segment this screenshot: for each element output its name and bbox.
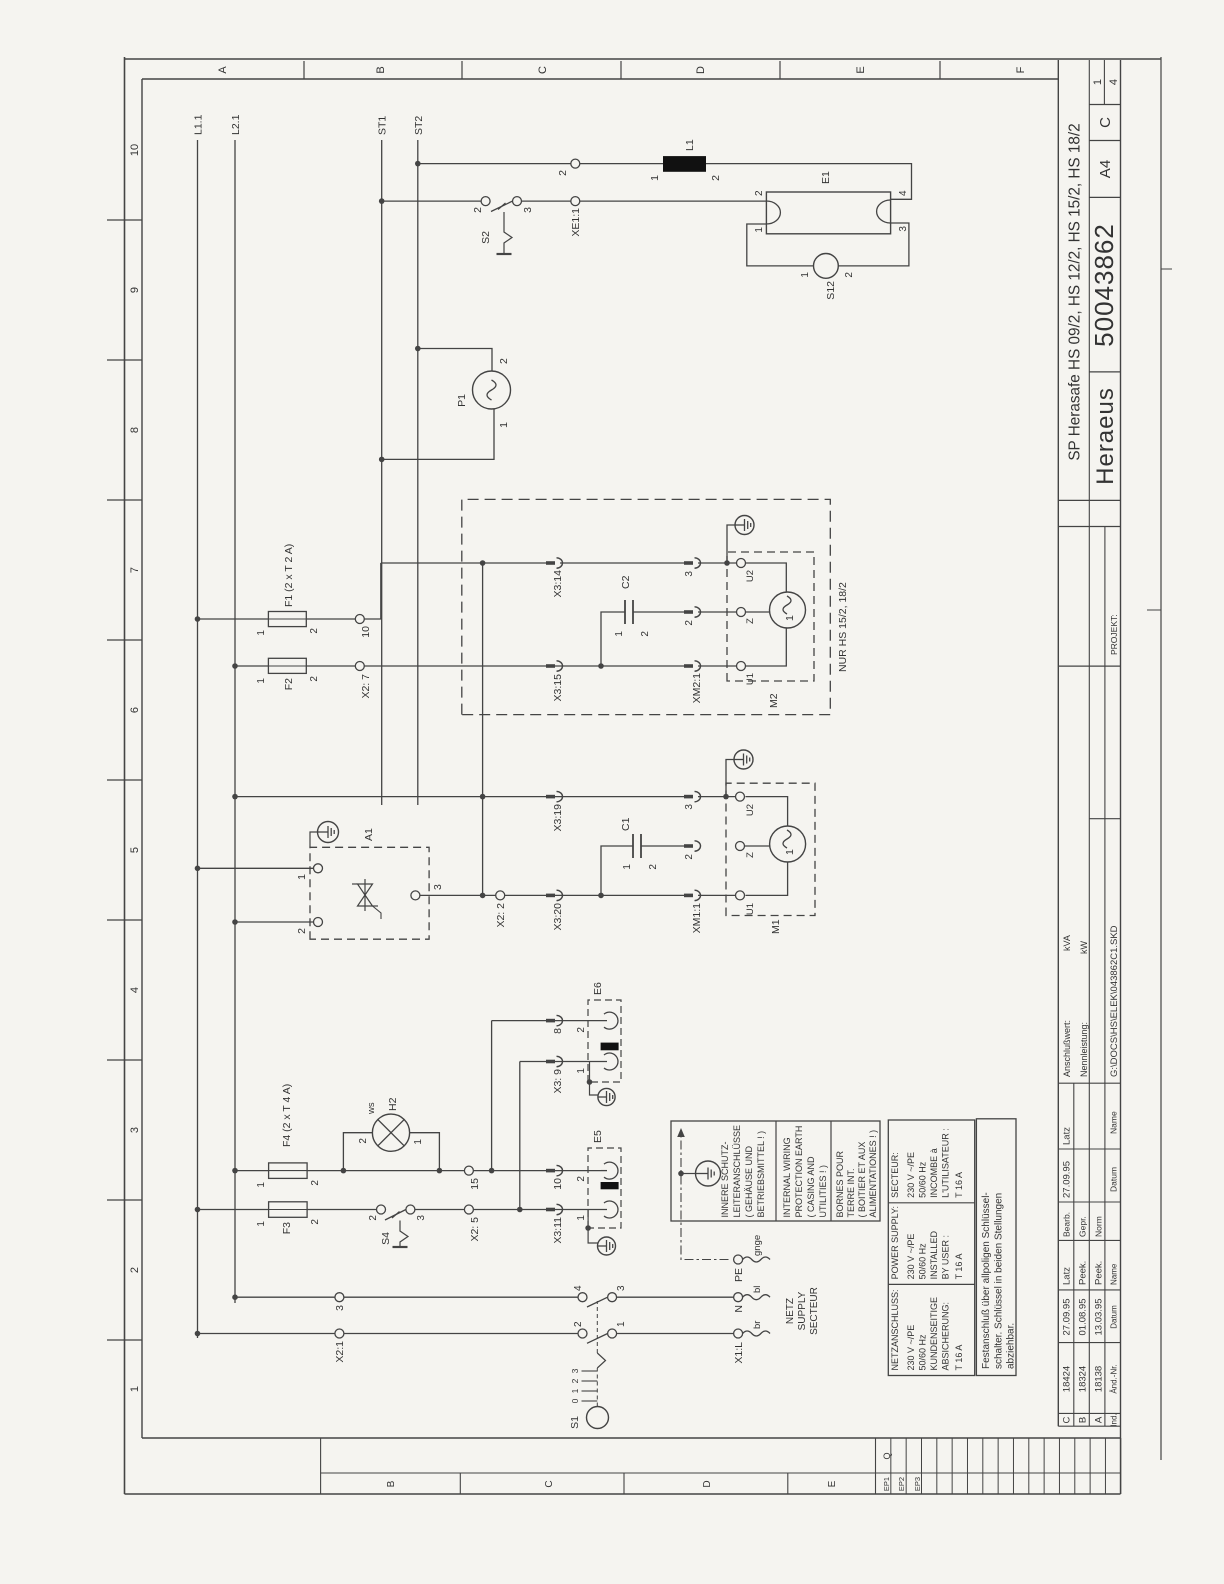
terminal X1:L	[734, 1329, 743, 1338]
svg-text:1: 1	[622, 864, 633, 870]
title block strip outline	[1057, 60, 1059, 1426]
M1 terminal U2	[736, 792, 745, 801]
node on ST2 for P1	[415, 346, 421, 352]
wire L2.1 to A1 pin 2	[235, 921, 314, 923]
A1 terminal 2	[314, 918, 323, 927]
node C1 tap	[598, 893, 604, 899]
svg-text:XM1:1: XM1:1	[691, 903, 703, 934]
wire X3:19 rung	[235, 796, 691, 798]
S1 mechanical dashed link	[596, 1368, 598, 1407]
svg-text:C: C	[537, 66, 549, 74]
connector XM1:1 pin 1	[684, 894, 693, 898]
wire S1 to N terminal	[617, 1296, 734, 1298]
svg-text:E6: E6	[592, 982, 604, 995]
svg-text:Name: Name	[1109, 1111, 1119, 1134]
svg-text:C: C	[1062, 1416, 1073, 1423]
svg-text:INTERNAL WIRING: INTERNAL WIRING	[782, 1137, 792, 1217]
svg-text:E: E	[855, 66, 867, 73]
svg-text:18424: 18424	[1062, 1366, 1073, 1392]
svg-text:0: 0	[570, 1398, 580, 1403]
earth note dash-dot link with arrow	[681, 1135, 729, 1260]
connector X3:20	[546, 894, 555, 898]
fuse F2	[268, 658, 306, 673]
svg-text:( CASING AND: ( CASING AND	[806, 1156, 816, 1218]
wire E1 pin3 to S12	[838, 223, 909, 266]
svg-text:S2: S2	[480, 231, 492, 244]
node on ST2 lamp branch	[415, 161, 421, 167]
svg-text:A4: A4	[1097, 160, 1114, 178]
svg-text:Festanschluß über allpoligen: Festanschluß über allpoligen Schlüssel-	[981, 1192, 992, 1369]
S1 contact circles upper pole	[578, 1293, 587, 1302]
connector X3:15	[546, 664, 555, 668]
svg-text:A: A	[1094, 1416, 1105, 1423]
E6 element arc left	[604, 1053, 618, 1070]
E5 element arc right	[604, 1162, 618, 1179]
switch S4 blade	[385, 1210, 406, 1221]
svg-text:3: 3	[684, 804, 695, 810]
connector XM2:1 pin 3	[684, 561, 693, 565]
svg-text:SECTEUR:: SECTEUR:	[890, 1152, 900, 1198]
node on L1.1 for X2:1	[195, 1331, 201, 1337]
E6 earth tap	[590, 1062, 599, 1096]
S1 blade upper pole	[587, 1297, 608, 1307]
flexible wire PE	[743, 1257, 770, 1262]
svg-text:INSTALLED: INSTALLED	[929, 1231, 939, 1280]
svg-text:Gepr.: Gepr.	[1078, 1216, 1088, 1237]
svg-text:2: 2	[754, 190, 765, 196]
svg-text:ws: ws	[366, 1102, 377, 1115]
svg-text:PROTECTION EARTH: PROTECTION EARTH	[794, 1126, 804, 1218]
svg-text:13.03.95: 13.03.95	[1094, 1299, 1105, 1336]
outer border frame	[124, 57, 126, 1494]
capacitor C2	[624, 600, 626, 624]
svg-text:1: 1	[614, 631, 625, 637]
E6 protective earth connector	[598, 1088, 615, 1105]
svg-text:1: 1	[576, 1215, 587, 1221]
svg-text:50/60 Hz: 50/60 Hz	[918, 1334, 928, 1371]
svg-text:L'UTILISATEUR :: L'UTILISATEUR :	[941, 1128, 951, 1198]
wire F2 to X2:7	[306, 665, 355, 667]
svg-text:F: F	[1015, 66, 1027, 73]
svg-text:10: 10	[552, 1178, 564, 1190]
wire terminal to ballast L1	[580, 163, 663, 165]
wire ST2 down to terminal 2	[418, 163, 571, 165]
node on ST1 S2 branch	[379, 198, 385, 204]
wire X2:2 down rung	[505, 894, 691, 896]
svg-text:NETZ: NETZ	[785, 1298, 796, 1324]
svg-text:Z: Z	[745, 618, 756, 624]
left margin strip column divider	[321, 1472, 1121, 1474]
connector XM1:1 pin 3	[684, 795, 693, 799]
svg-text:br: br	[752, 1321, 763, 1329]
svg-text:D: D	[702, 1480, 713, 1487]
svg-text:1: 1	[649, 175, 661, 181]
wire ST2 to P1 terminal 2	[418, 349, 492, 372]
svg-text:1: 1	[413, 1139, 424, 1145]
svg-text:TERRE INT.: TERRE INT.	[846, 1168, 856, 1217]
svg-text:E5: E5	[592, 1130, 604, 1143]
svg-text:Latz: Latz	[1062, 1267, 1073, 1285]
fuse F3	[269, 1202, 308, 1218]
svg-text:U2: U2	[745, 570, 756, 582]
svg-text:1: 1	[754, 227, 765, 233]
svg-text:Norm: Norm	[1094, 1216, 1104, 1237]
rotary switch S1	[587, 1407, 609, 1429]
svg-text:L2.1: L2.1	[230, 114, 242, 135]
svg-text:2: 2	[573, 1321, 584, 1327]
svg-text:9: 9	[129, 287, 141, 293]
M2 protective earth connector	[735, 516, 754, 535]
svg-text:H2: H2	[387, 1097, 399, 1111]
wire C2 to XM2:1 pin2	[633, 611, 691, 613]
E6 element bar	[601, 1043, 619, 1051]
key switch note box	[976, 1119, 1016, 1376]
svg-text:T 16 A: T 16 A	[954, 1172, 964, 1198]
node on ST1 for P1	[379, 457, 385, 463]
wire XM2 pin2 to M2 Z	[698, 611, 737, 613]
heater box E5	[588, 1148, 621, 1228]
svg-text:1: 1	[256, 678, 267, 684]
wire F3 to S4	[307, 1209, 376, 1211]
M1 winding wire U2	[746, 797, 788, 826]
PROJEKT field	[1058, 665, 1120, 667]
E5 element bar	[601, 1182, 619, 1189]
file path field	[1089, 818, 1120, 820]
svg-text:X3:14: X3:14	[552, 570, 564, 598]
svg-text:X3:20: X3:20	[552, 903, 564, 931]
svg-text:BORNES POUR: BORNES POUR	[835, 1150, 845, 1217]
connector X3:14	[546, 561, 555, 565]
inner frame left line	[142, 1437, 1121, 1439]
indicator P1	[473, 371, 511, 409]
svg-text:Name: Name	[1110, 1263, 1119, 1285]
svg-text:U2: U2	[745, 804, 756, 816]
M1 protective earth connector	[734, 750, 753, 769]
svg-text:Anschlußwert:: Anschlußwert:	[1062, 1020, 1072, 1077]
svg-text:Peek.: Peek.	[1078, 1261, 1089, 1285]
svg-text:X3:19: X3:19	[552, 804, 564, 832]
switch S2 contact circles	[481, 197, 490, 206]
svg-text:SECTEUR: SECTEUR	[809, 1287, 820, 1335]
svg-text:01.08.95: 01.08.95	[1078, 1299, 1089, 1336]
fold mark lower right	[1161, 268, 1172, 270]
wire L1.1 to A1 pin 1	[198, 867, 314, 869]
svg-text:1: 1	[576, 1068, 587, 1074]
A1 terminal 1	[314, 864, 323, 873]
node on L2.1 for X3:19	[232, 794, 238, 800]
motor M2 circle	[770, 592, 806, 628]
wire stub to E5 arc1	[601, 1170, 607, 1172]
E5 protective earth connector	[598, 1237, 616, 1255]
svg-text:5: 5	[129, 847, 141, 853]
svg-text:1: 1	[129, 1386, 141, 1392]
svg-text:F3: F3	[281, 1222, 293, 1234]
svg-text:ALIMENTATIONES ! ): ALIMENTATIONES ! )	[868, 1130, 878, 1218]
motor box M2	[727, 552, 814, 681]
svg-text:SP Herasafe HS 09/2, HS 12/2,: SP Herasafe HS 09/2, HS 12/2, HS 15/2, H…	[1067, 123, 1084, 460]
svg-text:2: 2	[129, 1267, 141, 1273]
wire C2 riser	[601, 612, 625, 666]
svg-text:P1: P1	[456, 394, 468, 407]
connector XM1:1 pin 2	[684, 844, 693, 848]
E1 electrode top	[766, 201, 780, 224]
terminal X2:3	[335, 1293, 344, 1302]
motor M1 circle	[770, 826, 806, 862]
svg-text:B: B	[375, 66, 387, 73]
terminal circle 15	[464, 1166, 473, 1175]
svg-text:1: 1	[498, 422, 510, 428]
wire XM1 pin3 to M1 U2	[698, 796, 736, 798]
svg-text:schalter. Schlüssel in beid: schalter. Schlüssel in beiden Stellungen	[994, 1193, 1005, 1369]
node E6 feed upper	[489, 1168, 495, 1174]
svg-text:Z: Z	[745, 852, 756, 858]
top zone number band dividers	[107, 1339, 142, 1341]
svg-text:X2: 2: X2: 2	[495, 903, 507, 928]
svg-text:C: C	[544, 1480, 555, 1487]
wire XE1:1 to E1 pin 2	[580, 200, 767, 202]
switch S2 blade	[491, 201, 513, 211]
wire X3:14 rung upper	[381, 562, 548, 564]
node C2 tap on X3:15 rung	[598, 663, 604, 669]
wire to M2 earth symbol	[727, 525, 735, 563]
svg-text:M2: M2	[768, 693, 780, 708]
earth note protective earth connector	[696, 1161, 721, 1186]
wire rail L1.1	[197, 140, 199, 1338]
svg-text:50043862: 50043862	[1089, 223, 1119, 347]
wire S1 to X1:L	[617, 1333, 734, 1335]
wire ST1 to P1 terminal 1	[382, 409, 494, 459]
connector 10	[546, 1169, 555, 1173]
svg-text:M1: M1	[770, 919, 782, 934]
M1 terminal U1	[736, 891, 745, 900]
svg-text:kW: kW	[1079, 941, 1089, 955]
S1 detent notch	[597, 1353, 605, 1368]
svg-text:T 16 A: T 16 A	[954, 1345, 964, 1371]
svg-text:G:\DOCS\HS\ELEK\043862C1.SKD: G:\DOCS\HS\ELEK\043862C1.SKD	[1109, 925, 1120, 1077]
E5 earth tap	[588, 1210, 598, 1244]
svg-text:UTILITIES ! ): UTILITIES ! )	[818, 1165, 828, 1218]
svg-text:BY USER :: BY USER :	[941, 1235, 951, 1279]
connector X3:11	[546, 1208, 555, 1212]
terminal X2:2	[496, 891, 505, 900]
sheet fraction 1/4	[1103, 60, 1105, 105]
wire F4 down	[307, 1170, 464, 1172]
svg-text:2: 2	[684, 854, 695, 860]
svg-text:INCOMBE à: INCOMBE à	[929, 1148, 939, 1198]
wire L1.1 to X2:1	[198, 1333, 335, 1335]
svg-text:2: 2	[310, 1180, 321, 1186]
wire 15 to E5	[473, 1170, 601, 1172]
node for M1 earth	[723, 794, 729, 800]
svg-text:N: N	[733, 1305, 745, 1313]
S4 key actuator symbol	[392, 1212, 400, 1219]
svg-text:X1:L: X1:L	[733, 1342, 745, 1364]
svg-text:50/60 Hz: 50/60 Hz	[918, 1161, 928, 1198]
wire L2.1 to X2:3	[235, 1296, 335, 1298]
wire rail ST1	[381, 140, 383, 805]
svg-text:Heraeus: Heraeus	[1092, 387, 1119, 485]
terminal X2:5	[464, 1205, 473, 1214]
wire E6 left rung	[520, 1061, 607, 1063]
svg-text:2: 2	[472, 207, 484, 213]
svg-text:3: 3	[416, 1215, 427, 1221]
svg-text:C: C	[1097, 117, 1114, 128]
fold mark lower middle	[1147, 609, 1161, 611]
svg-text:15: 15	[469, 1178, 481, 1190]
title block middle row line	[1088, 500, 1090, 1426]
svg-text:F1 (2 x T 2 A): F1 (2 x T 2 A)	[283, 544, 295, 607]
svg-text:XE1:1: XE1:1	[570, 208, 582, 237]
wire F1 to terminal 10	[306, 618, 355, 620]
svg-text:18138: 18138	[1094, 1366, 1105, 1392]
node E5 earth on box edge	[585, 1225, 591, 1231]
svg-text:1: 1	[784, 849, 796, 855]
wire X2:7 down X3:15 rung	[364, 665, 548, 667]
svg-text:2: 2	[309, 628, 320, 634]
terminal circle 2 on ballast rung	[571, 159, 580, 168]
svg-text:1: 1	[256, 1221, 267, 1227]
svg-text:4: 4	[573, 1285, 584, 1291]
connector XM2:1 pin 1	[684, 664, 693, 668]
svg-text:2: 2	[576, 1176, 587, 1182]
wire XM2 pin1 to M2 U1	[698, 665, 737, 667]
M1 winding wire Z	[745, 845, 770, 847]
wire L1.1 to F3	[198, 1209, 269, 1211]
svg-text:U1: U1	[745, 903, 756, 915]
fuse F4	[269, 1163, 308, 1179]
svg-text:Datum: Datum	[1110, 1305, 1119, 1329]
E5 element arc left	[604, 1201, 618, 1218]
wire E1 pin1 to S12	[747, 224, 814, 266]
wire E6 right rung	[492, 1020, 607, 1022]
svg-text:Datum: Datum	[1109, 1167, 1119, 1192]
svg-text:8: 8	[552, 1028, 564, 1034]
svg-text:L1.1: L1.1	[193, 114, 205, 135]
svg-text:C2: C2	[620, 575, 632, 589]
svg-text:T 16 A: T 16 A	[954, 1254, 964, 1280]
M2 terminal U1	[737, 662, 746, 671]
wire X3:14 to XM2:1 pin3	[560, 562, 691, 564]
svg-text:3: 3	[129, 1127, 141, 1133]
svg-text:X3: 9: X3: 9	[552, 1069, 564, 1094]
inductor L1 ballast	[663, 156, 706, 172]
svg-text:A1: A1	[363, 828, 375, 841]
wire rail L2.1	[234, 140, 236, 1303]
connector XM2:1 pin 2	[684, 610, 693, 614]
M2 winding wire U2	[746, 563, 787, 592]
svg-text:Änd.-Nr.: Änd.-Nr.	[1110, 1364, 1119, 1393]
inner frame right line	[142, 78, 1058, 80]
wire X2:3 to S1	[344, 1296, 578, 1298]
svg-text:3: 3	[570, 1368, 580, 1373]
svg-text:XM2:1: XM2:1	[691, 673, 703, 704]
group box NUR HS 15/2 18/2	[462, 499, 831, 714]
wire lower feed to E6	[519, 1062, 521, 1210]
svg-text:EP2: EP2	[897, 1477, 906, 1491]
M2 winding wire U1	[746, 629, 787, 667]
svg-text:230 V ~/PE: 230 V ~/PE	[906, 1325, 916, 1371]
svg-text:2: 2	[570, 1378, 580, 1383]
svg-text:230 V ~/PE: 230 V ~/PE	[906, 1234, 916, 1280]
svg-text:EP1: EP1	[882, 1477, 891, 1491]
svg-text:3: 3	[432, 884, 444, 890]
svg-text:4: 4	[898, 190, 909, 196]
svg-text:2: 2	[710, 175, 722, 181]
wire L2.1 to F2	[235, 665, 268, 667]
wire A1 output to X2:2	[420, 894, 496, 896]
A1 protective earth connector	[318, 822, 339, 843]
svg-text:( GEHÄUSE UND: ( GEHÄUSE UND	[744, 1145, 754, 1217]
heater box E6	[588, 1000, 621, 1082]
motor box M1	[726, 783, 815, 915]
svg-text:2: 2	[648, 864, 659, 870]
svg-text:X3:15: X3:15	[552, 674, 564, 702]
svg-text:F2: F2	[283, 678, 295, 690]
wire C1 riser	[601, 846, 633, 895]
svg-text:1: 1	[256, 1182, 267, 1188]
svg-text:S12: S12	[825, 281, 837, 300]
svg-text:230 V ~/PE: 230 V ~/PE	[906, 1152, 916, 1198]
svg-text:Latz: Latz	[1062, 1127, 1073, 1145]
mains rating table box	[888, 1120, 974, 1376]
S1 position ticks	[582, 1400, 598, 1402]
svg-text:NUR HS 15/2, 18/2: NUR HS 15/2, 18/2	[837, 582, 849, 672]
svg-text:2: 2	[368, 1215, 379, 1221]
wire L1.1 to F1	[198, 618, 269, 620]
svg-text:2: 2	[576, 1027, 587, 1033]
svg-text:B: B	[1078, 1417, 1089, 1423]
svg-text:18324: 18324	[1078, 1366, 1089, 1392]
svg-text:1: 1	[256, 630, 267, 636]
node link at X3:20 rung	[480, 893, 486, 899]
node for M2 earth	[724, 560, 730, 566]
svg-text:3: 3	[684, 571, 695, 577]
svg-text:4: 4	[129, 987, 141, 993]
svg-text:SUPPLY: SUPPLY	[797, 1291, 808, 1330]
svg-text:INNERE SCHUTZ-: INNERE SCHUTZ-	[720, 1141, 730, 1217]
wire XM2 pin3 to M2 U2	[698, 562, 737, 564]
flexible wire L	[743, 1331, 770, 1336]
inner frame top line	[141, 79, 143, 1438]
svg-text:Bearb.: Bearb.	[1062, 1212, 1072, 1237]
svg-text:C1: C1	[620, 817, 632, 831]
stub to earth symbol	[681, 1173, 696, 1175]
svg-text:EP3: EP3	[913, 1477, 922, 1491]
node on L2.1 for F2	[232, 663, 238, 669]
svg-text:PROJEKT:: PROJEKT:	[1109, 614, 1119, 655]
svg-text:2: 2	[358, 1138, 369, 1144]
svg-text:X2:1: X2:1	[334, 1341, 346, 1363]
EP reference grid rows	[890, 1438, 892, 1494]
wire to M1 earth symbol	[726, 760, 734, 797]
svg-text:6: 6	[129, 707, 141, 713]
right zone letter band dividers	[303, 61, 305, 79]
E1 electrode bottom	[877, 200, 891, 223]
left strip letter cell dividers	[459, 1473, 461, 1494]
svg-text:bl: bl	[752, 1286, 763, 1293]
terminal X2:7	[355, 662, 364, 671]
svg-text:27.09.95: 27.09.95	[1062, 1299, 1073, 1336]
lamp tube E1 outline	[766, 192, 890, 234]
svg-text:3: 3	[334, 1305, 346, 1311]
svg-text:Q: Q	[882, 1452, 892, 1459]
svg-text:gnge: gnge	[752, 1235, 763, 1256]
node on L2.1 for F4	[232, 1168, 238, 1174]
S2 key actuator symbol	[498, 203, 506, 210]
revision table row line A/header	[1104, 527, 1106, 1427]
svg-text:2: 2	[296, 928, 308, 934]
terminal circle 10	[355, 615, 364, 624]
